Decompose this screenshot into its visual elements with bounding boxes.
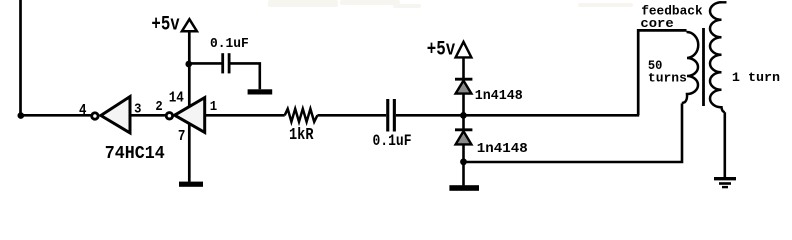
resistor R1 1kR <box>285 109 318 122</box>
winding W2 1 turn top lead <box>722 1 727 3</box>
wire node to D2 <box>462 115 465 128</box>
power +5v symbol left <box>182 19 197 31</box>
svg-text:1n4148: 1n4148 <box>475 89 523 104</box>
svg-text:2: 2 <box>155 99 162 115</box>
diode D2 1n4148 cathode bar <box>455 128 472 131</box>
node lower junction <box>460 158 467 165</box>
wire lower node to ground <box>462 162 465 186</box>
node +5v junction <box>185 61 192 68</box>
diode D1 1n4148 cathode bar <box>455 78 472 81</box>
ground C1 <box>248 89 273 94</box>
svg-text:7: 7 <box>178 128 186 145</box>
inverter U1A <box>101 97 130 133</box>
wire input to U1A output bubble <box>21 114 91 117</box>
ground U1B pin7 <box>179 182 203 187</box>
capacitor C2 0.1uF plates <box>386 99 389 132</box>
wire winding W1 bottom to lower wire <box>464 103 683 162</box>
winding W2 1 turn <box>710 2 725 112</box>
wire +5v to D1 <box>462 57 465 78</box>
node input junction <box>18 112 25 119</box>
ground transformer <box>714 179 736 187</box>
wire D2 to lower node <box>462 144 465 161</box>
wire left vertical input <box>19 0 22 115</box>
svg-text:1: 1 <box>210 99 217 115</box>
wire W2 bottom to ground <box>723 112 726 177</box>
+5v rail down to pin14 and pin7 to ground <box>188 31 191 182</box>
svg-text:0.1uF: 0.1uF <box>210 37 249 52</box>
capacitor C1 0.1uF plates <box>221 53 224 73</box>
ground diode clamp <box>449 185 479 191</box>
wire C1 to ground <box>231 63 260 89</box>
label 50 turns <box>648 58 687 86</box>
svg-text:+5v: +5v <box>151 14 179 37</box>
svg-text:14: 14 <box>169 90 184 107</box>
power +5v symbol right <box>456 42 472 58</box>
svg-text:1kR: 1kR <box>289 125 314 144</box>
svg-text:0.1uF: 0.1uF <box>373 132 412 150</box>
wire R1 to C2 <box>317 114 386 117</box>
svg-text:+5v: +5v <box>427 38 456 61</box>
svg-text:1n4148: 1n4148 <box>477 141 528 157</box>
svg-text:1 turn: 1 turn <box>732 70 780 85</box>
inverter U1B <box>175 98 205 133</box>
svg-text:4: 4 <box>79 102 87 119</box>
diode D1 1n4148 <box>456 81 472 94</box>
wire +5v to C1 <box>189 62 222 65</box>
svg-text:turns: turns <box>648 71 687 86</box>
svg-text:74HC14: 74HC14 <box>105 143 165 164</box>
winding W1 50 turns <box>682 32 698 103</box>
transformer core <box>702 28 705 106</box>
svg-text:core: core <box>640 16 673 31</box>
wire D1 to node <box>462 94 465 116</box>
inverter U1B bubble <box>166 113 172 119</box>
wire U1B output to R1 <box>205 114 285 117</box>
faint ghost marks top (cropped text remnant) <box>268 0 633 8</box>
node diode clamp mid <box>460 112 467 119</box>
wire C2 to transformer riser <box>396 114 639 117</box>
inverter U1A bubble <box>92 113 98 119</box>
label feedback core <box>640 4 702 31</box>
wire U1A input to U1B bubble <box>130 114 166 117</box>
diode D2 1n4148 <box>456 131 472 144</box>
wire riser up to winding top <box>638 30 686 115</box>
